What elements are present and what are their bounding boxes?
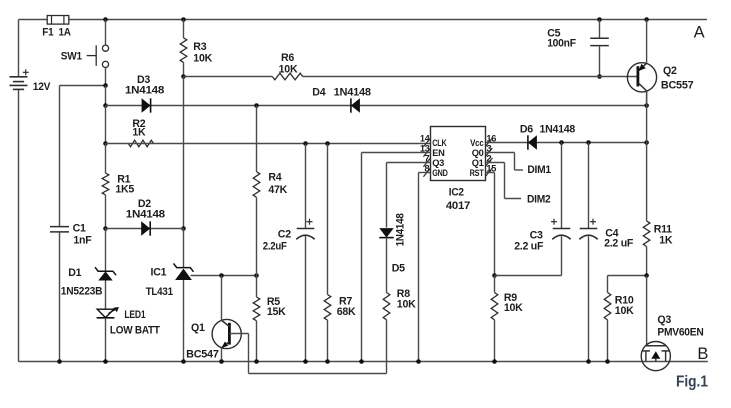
node junction gate node (644, 273, 649, 278)
label IC2 (449, 187, 464, 199)
wire R10 to ground (607, 320, 609, 362)
label 100nF (547, 38, 576, 50)
wire SW1 node to C1 (60, 85, 106, 87)
label 15K (267, 306, 286, 318)
svg-text:Vcc: Vcc (470, 138, 484, 148)
label 1K R11 (659, 234, 673, 246)
label 1N5223B (61, 285, 103, 297)
svg-text:1N4148: 1N4148 (395, 213, 407, 246)
node junction RST/C3 bottom (492, 273, 497, 278)
label R11 (654, 223, 672, 235)
label Q3 (657, 314, 671, 326)
wire C5 bottom lead (599, 46, 601, 77)
label EN pin (432, 148, 445, 158)
label CLK pin (432, 138, 447, 148)
svg-text:F1 1A: F1 1A (42, 26, 71, 38)
label Q0 pin (472, 148, 484, 158)
svg-text:TL431: TL431 (146, 286, 173, 298)
wire IC1 ref to R4/R5 node (191, 275, 257, 277)
svg-text:BC547: BC547 (186, 348, 219, 360)
label 10K R6 (279, 63, 298, 75)
svg-text:Q3: Q3 (432, 158, 444, 168)
wire CLK line (106, 143, 431, 145)
wire LED1 to ground (105, 318, 107, 362)
svg-text:C1: C1 (73, 223, 86, 235)
wire R1 to D2 node (105, 195, 107, 229)
svg-text:1K: 1K (132, 126, 146, 138)
label 10K R8 (397, 298, 416, 310)
capacitor C5 (590, 38, 609, 45)
svg-text:D1: D1 (68, 267, 81, 279)
svg-text:10K: 10K (193, 53, 212, 65)
wire top rail to R3 (183, 20, 185, 38)
wire C1 bottom lead (59, 232, 61, 362)
fuse F1 (47, 16, 69, 25)
node junction D2/IC1 (181, 226, 186, 231)
node junction Q1 emitter/ground (219, 359, 224, 364)
node junction D3 line (103, 103, 108, 108)
wire R8 to base bus (386, 320, 388, 374)
node junction C1/ground (57, 359, 62, 364)
node junction R9/ground (492, 359, 497, 364)
wire C1 top lead (59, 86, 61, 227)
node junction D3 line / R4 (254, 103, 259, 108)
label 10K R9 (504, 302, 523, 314)
svg-text:SW1: SW1 (61, 51, 82, 63)
wire D3 node to R4 (256, 106, 258, 172)
svg-text:DIM2: DIM2 (527, 193, 551, 205)
wire battery negative lead (18, 89, 20, 361)
node junction R10/ground (605, 359, 610, 364)
LED LED1 (97, 308, 118, 318)
transistor Q1 BC547 (212, 319, 241, 348)
node junction SW1/C1 wire (103, 83, 108, 88)
label C4 (605, 228, 618, 240)
svg-text:1N4148: 1N4148 (334, 86, 371, 98)
wire D2 node to IC1 (183, 229, 185, 268)
label 1N4148 D3 (125, 85, 164, 97)
pin 2 tick (485, 154, 492, 167)
svg-text:C2: C2 (278, 229, 291, 241)
svg-text:B: B (697, 345, 708, 363)
node junction GND/ground (416, 359, 421, 364)
zener diode D1 (95, 267, 116, 280)
pin 14 tick (420, 134, 431, 147)
node junction LED1/ground (103, 359, 108, 364)
svg-text:A: A (694, 24, 705, 42)
label 1nF (73, 235, 92, 247)
label Fig.1 (676, 374, 708, 391)
label Q3 pin (432, 158, 444, 168)
label 1N4148 D5 vertical (395, 213, 407, 246)
label C5 (547, 27, 560, 39)
pin 3 tick (485, 144, 492, 157)
node junction Vcc line / C4 (586, 140, 591, 145)
wire bottom ground rail (19, 361, 708, 363)
node junction Vcc line / C3 (559, 140, 564, 145)
label 10K R3 (193, 53, 212, 65)
svg-text:2.2uF: 2.2uF (263, 240, 288, 252)
svg-text:10K: 10K (397, 298, 416, 310)
label D2 (138, 198, 151, 210)
label 2.2 uF C3 (514, 241, 544, 253)
label DIM2 (527, 193, 551, 205)
resistor R7 (324, 295, 331, 321)
svg-text:RST: RST (470, 168, 484, 178)
pin 7 tick (423, 154, 430, 167)
wire Q1 emitter down (221, 348, 223, 362)
label 1N4148 D4 (334, 86, 371, 98)
svg-text:Q0: Q0 (472, 148, 484, 158)
label 1N4148 D6 (540, 124, 576, 136)
capacitor C1 (50, 227, 69, 232)
switch SW1 (87, 20, 109, 86)
node junction R7/ground (325, 359, 330, 364)
label C1 (73, 223, 86, 235)
label D4 (312, 86, 325, 98)
wire C2 top lead (305, 144, 307, 229)
diode D3 (142, 98, 151, 112)
label R2 (132, 118, 145, 130)
wire Vcc line (486, 142, 647, 144)
svg-text:D4: D4 (312, 86, 325, 98)
capacitor C3 (551, 219, 571, 240)
label D1 (68, 267, 81, 279)
svg-text:1K: 1K (659, 234, 673, 246)
svg-text:DIM1: DIM1 (527, 164, 551, 176)
svg-text:IC1: IC1 (151, 267, 167, 279)
node junction IC1/ground (181, 359, 186, 364)
IC U2 4017 body (431, 127, 486, 181)
label R1 (117, 173, 130, 185)
svg-text:R6: R6 (281, 52, 294, 64)
svg-text:D6: D6 (520, 124, 533, 136)
resistor R4 (253, 172, 260, 198)
svg-text:CLK: CLK (432, 138, 447, 148)
label GND pin (432, 168, 448, 178)
label R7 (339, 296, 352, 308)
label 1K R2 (132, 126, 146, 138)
label R9 (504, 292, 517, 304)
wire left rail SW1 to D3 node (105, 86, 107, 106)
wire RST pin down (486, 173, 495, 276)
wire D2 line (106, 228, 184, 230)
wire C3 top lead (561, 143, 563, 229)
label BC547 (186, 348, 219, 360)
wire GND pin to ground (419, 173, 431, 362)
svg-text:Q3: Q3 (657, 314, 671, 326)
label R10 (615, 294, 634, 306)
diode D5 (379, 228, 393, 238)
wire Q1 collector up (221, 276, 223, 321)
node junction top rail / C5 (597, 17, 602, 22)
svg-text:IC2: IC2 (449, 187, 464, 199)
node junction top rail / Q2 emitter (644, 17, 649, 22)
wire Q2 emitter up (646, 20, 648, 63)
wire R11 to gate node (646, 247, 648, 276)
label 2.2 uF C4 (604, 238, 634, 250)
node junction CLK line / C2 (303, 141, 308, 146)
wire C4 bottom lead (588, 236, 590, 361)
wire ref node to R5 (256, 276, 258, 298)
transistor Q2 BC557 (627, 63, 656, 92)
svg-text:LOW BATT: LOW BATT (110, 324, 161, 336)
label D3 (137, 74, 150, 86)
wire Q3 pin to D5 (387, 163, 431, 228)
wire Q2 collector stub (646, 91, 648, 106)
wire C5 top lead (599, 20, 601, 39)
wire Q1 to DIM2 (486, 163, 522, 199)
pin 16 tick (485, 134, 496, 147)
node junction top rail / R3 (181, 17, 186, 22)
svg-text:PMV60EN: PMV60EN (657, 327, 703, 339)
wire Q2 collector down (646, 92, 648, 221)
svg-text:47K: 47K (268, 184, 287, 196)
wire base bus (249, 373, 387, 375)
wire D3 line (106, 105, 647, 107)
node junction Q1 collector/ref wire (219, 273, 224, 278)
wire battery positive lead (18, 20, 20, 77)
svg-text:10K: 10K (279, 63, 298, 75)
label IC1 (151, 267, 167, 279)
pin 15 tick (485, 164, 497, 177)
wire R3 node down to D2 node (183, 77, 185, 229)
resistor R2 (128, 140, 153, 147)
svg-text:1nF: 1nF (73, 235, 92, 247)
wire gate node to Q3 (646, 276, 648, 346)
wire Q0 to DIM1 (486, 153, 524, 171)
label 68K (337, 306, 356, 318)
label B (697, 345, 708, 363)
resistor R10 (604, 293, 611, 320)
label RST pin (470, 168, 484, 178)
svg-text:2.2 uF: 2.2 uF (604, 238, 634, 250)
label BC557 (661, 79, 694, 91)
diode D6 (528, 135, 537, 149)
svg-text:1K5: 1K5 (115, 183, 134, 195)
svg-text:GND: GND (432, 168, 448, 178)
label TL431 (146, 286, 173, 298)
wire D1 to LED1 (105, 281, 107, 310)
wire C4 top lead (588, 143, 590, 229)
pin 8 tick (423, 164, 430, 177)
label D6 (520, 124, 533, 136)
svg-text:10K: 10K (504, 302, 523, 314)
label R4 (268, 171, 281, 183)
wire RST node to R9 (494, 276, 496, 293)
wire C2 bottom lead (305, 236, 307, 362)
node junction R2 line (103, 141, 108, 146)
label LED1 (124, 309, 145, 321)
wire R3 to R6 node (183, 62, 185, 76)
capacitor C4 (579, 219, 597, 240)
wire left rail R2 to R1 (105, 144, 107, 174)
diode D4 (351, 98, 360, 112)
svg-text:BC557: BC557 (661, 79, 694, 91)
node junction C4/ground (586, 359, 591, 364)
battery 12V (10, 69, 29, 89)
label SW1 (61, 51, 82, 63)
svg-text:12V: 12V (33, 81, 51, 93)
svg-text:4017: 4017 (446, 200, 470, 212)
wire R7 top lead (327, 144, 329, 295)
wire R9 to ground (494, 320, 496, 362)
label Q1 pin (472, 158, 484, 168)
wire C3 bottom to RST node (495, 236, 562, 275)
wire D2 node to D1 (105, 229, 107, 272)
wire left rail D3 to R2 node (105, 106, 107, 144)
svg-text:2.2 uF: 2.2 uF (514, 241, 544, 253)
svg-text:R3: R3 (193, 41, 206, 53)
svg-text:1N4148: 1N4148 (540, 124, 576, 136)
label C3 (530, 229, 543, 241)
label 47K (268, 184, 287, 196)
svg-text:EN: EN (432, 148, 445, 158)
node junction C5/base line (597, 74, 602, 79)
wire base bus riser (248, 334, 250, 374)
node junction R5/ground (254, 359, 259, 364)
wire D5 to R8 (386, 238, 388, 293)
svg-text:R4: R4 (268, 171, 281, 183)
label 1K5 (115, 183, 134, 195)
wire R6 line (184, 76, 638, 78)
svg-text:68K: 68K (337, 306, 356, 318)
label PMV60EN (657, 327, 703, 339)
label Q2 (663, 65, 677, 77)
label A (694, 24, 705, 42)
resistor R9 (491, 293, 498, 320)
resistor R5 (253, 297, 260, 321)
svg-text:Q1: Q1 (191, 322, 205, 334)
label Vcc pin (470, 138, 484, 148)
label D5 (392, 262, 405, 274)
transistor Q3 PMV60EN (641, 342, 670, 371)
wire EN pin to ground (362, 153, 431, 362)
wire IC1 anode to ground (183, 280, 185, 362)
svg-text:D5: D5 (392, 262, 405, 274)
label Q1 (191, 322, 205, 334)
label F1 1A (42, 26, 71, 38)
svg-text:LED1: LED1 (124, 309, 145, 321)
capacitor C2 (296, 219, 314, 240)
node junction R3/R6 (181, 74, 186, 79)
svg-text:10K: 10K (615, 305, 634, 317)
svg-text:100nF: 100nF (547, 38, 576, 50)
node junction D4 line / Q2 collector rail (644, 103, 649, 108)
wire R5 to ground (256, 321, 258, 362)
svg-text:1N4148: 1N4148 (125, 85, 164, 97)
svg-text:C3: C3 (530, 229, 543, 241)
label 2.2uF (263, 240, 288, 252)
node junction top rail / SW1 (103, 17, 108, 22)
label 4017 (446, 200, 470, 212)
node junction D2 line (103, 226, 108, 231)
label LOW BATT (110, 324, 161, 336)
resistor R1 (102, 173, 109, 195)
diode D2 (141, 221, 150, 235)
node junction EN/ground (359, 359, 364, 364)
pin 13 tick (420, 144, 431, 157)
shunt regulator IC1 TL431 (174, 263, 194, 280)
node junction Vcc line / R11 rail (644, 140, 649, 145)
svg-text:Q1: Q1 (472, 158, 484, 168)
label 1N4148 D2 (126, 209, 165, 221)
svg-text:Q2: Q2 (663, 65, 677, 77)
svg-text:15K: 15K (267, 306, 286, 318)
label 12V (33, 81, 51, 93)
node junction CLK line / R7 (325, 141, 330, 146)
resistor R11 (643, 221, 650, 247)
resistor R8 (383, 293, 390, 320)
svg-text:1N4148: 1N4148 (126, 209, 165, 221)
node junction C2/ground (303, 359, 308, 364)
wire top rail A (19, 19, 708, 21)
label R8 (397, 288, 410, 300)
svg-text:1N5223B: 1N5223B (61, 285, 103, 297)
node junction R4/R5/ref (254, 273, 259, 278)
wire R4 to ref node (256, 197, 258, 275)
label R5 (267, 296, 280, 308)
wire R10 top (608, 276, 647, 293)
label DIM1 (527, 164, 551, 176)
label C2 (278, 229, 291, 241)
label R6 (281, 52, 294, 64)
wire Q1 base (229, 333, 248, 335)
wire R7 to ground (327, 320, 329, 361)
label 10K R10 (615, 305, 634, 317)
label R3 (193, 41, 206, 53)
resistor R3 (180, 38, 187, 63)
svg-text:Fig.1: Fig.1 (676, 374, 708, 391)
resistor R6 (272, 73, 302, 80)
